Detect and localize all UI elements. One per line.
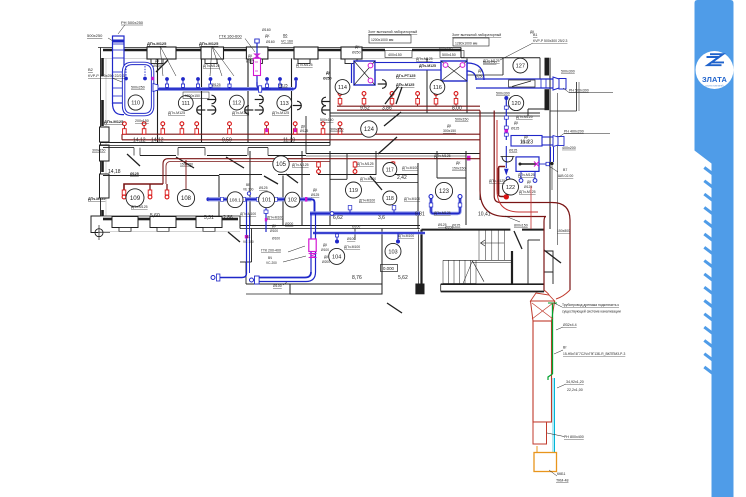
svg-text:0.000: 0.000	[383, 266, 395, 271]
svg-text:ДПч-М125: ДПч-М125	[434, 154, 451, 158]
svg-text:ДК: ДК	[527, 180, 531, 184]
svg-text:111: 111	[182, 101, 191, 107]
logo Z glyph	[707, 57, 722, 65]
svg-text:105: 105	[276, 162, 287, 168]
svg-text:Ø125: Ø125	[438, 223, 447, 227]
svg-text:ДПч-М100: ДПч-М100	[402, 166, 418, 170]
svg-text:ДПч-М125: ДПч-М125	[199, 41, 219, 46]
svg-text:ДПч-М100: ДПч-М100	[360, 177, 376, 181]
GTK unit elbow to room 113	[257, 82, 271, 89]
label level 0.000	[381, 265, 398, 272]
room circle 109	[126, 189, 144, 207]
svg-text:ТКМ-48: ТКМ-48	[556, 479, 568, 483]
corridor bottom wall zigzag	[103, 147, 134, 149]
svg-text:9,81: 9,81	[415, 212, 425, 218]
flow value box 11.23	[511, 136, 542, 147]
label 500x150 box	[440, 51, 464, 58]
svg-text:9,52: 9,52	[360, 106, 370, 112]
stub and diffuser room 103	[397, 233, 399, 240]
svg-text:800х150: 800х150	[514, 224, 528, 228]
svg-text:150х150: 150х150	[180, 163, 193, 167]
fume hood room 116	[441, 61, 467, 81]
drainage pipe green	[552, 303, 554, 374]
svg-text:400х200: 400х200	[562, 146, 576, 150]
partition walls top room band	[157, 59, 159, 143]
U-duct room 123	[431, 198, 460, 214]
shaft transition trapezoid	[531, 301, 555, 321]
svg-text:127: 127	[516, 64, 525, 70]
exhaust outlet PN 500x300	[553, 77, 559, 90]
riser connection to ShV unit	[505, 146, 507, 168]
svg-text:Ø200: Ø200	[285, 222, 293, 226]
svg-text:ГТК 200-400: ГТК 200-400	[261, 249, 281, 253]
corridor top wall (right part)	[330, 112, 540, 114]
svg-text:ДПч-М100: ДПч-М100	[398, 234, 414, 238]
duct elbow to outlet 200	[259, 272, 311, 278]
room circle 114	[335, 80, 350, 95]
room circle 108	[177, 189, 194, 206]
svg-text:1200х150: 1200х150	[185, 94, 200, 98]
svg-text:ДК: ДК	[524, 135, 528, 139]
svg-text:103: 103	[388, 249, 397, 255]
blue brand ribbon	[695, 0, 734, 497]
duct transition to shaft	[544, 290, 570, 299]
svg-text:ДК: ДК	[456, 161, 461, 165]
logo circle ZLATA	[696, 51, 734, 89]
damper box in exhaust duct	[509, 80, 535, 87]
svg-text:300х150: 300х150	[330, 128, 343, 132]
svg-text:5,62: 5,62	[398, 275, 408, 281]
KKB1 unit box orange	[534, 453, 557, 472]
condensate pipe cyan	[545, 378, 555, 462]
svg-text:ВС: ВС	[246, 235, 251, 239]
diffuser stubs rooms 111-113	[166, 81, 168, 90]
stub and diffuser room 104	[336, 233, 338, 240]
room circle 120	[508, 95, 523, 110]
svg-text:Ø100: Ø100	[273, 284, 282, 288]
svg-text:Ø250: Ø250	[475, 75, 484, 79]
partition walls middle band	[218, 176, 220, 217]
svg-text:ГТК 160-600: ГТК 160-600	[219, 34, 243, 39]
duct end cap room below	[255, 276, 260, 284]
riser duct room 120	[505, 99, 507, 140]
svg-text:ДПч-М125: ДПч-М125	[396, 83, 414, 87]
right outer wall	[549, 58, 551, 229]
svg-text:101: 101	[262, 198, 271, 204]
middle-bottom partitions	[251, 229, 253, 263]
svg-text:KVP-P 500х300 25/2.3: KVP-P 500х300 25/2.3	[533, 39, 568, 43]
exhaust shaft down to KKB	[533, 321, 552, 422]
svg-text:ДК: ДК	[155, 59, 159, 63]
duct reducer room 110-111	[153, 84, 158, 92]
svg-text:Вт: Вт	[563, 346, 567, 350]
bottom wall rooms 104/103	[290, 284, 382, 294]
room circle 104	[329, 248, 345, 264]
room circle 112	[229, 95, 244, 110]
exterior L-wall at top right exit	[576, 82, 578, 111]
svg-text:108.1: 108.1	[229, 197, 241, 202]
svg-text:2,86: 2,86	[223, 215, 233, 221]
GTK 200-400 unit box	[309, 239, 316, 252]
svg-text:Ø250: Ø250	[352, 51, 361, 55]
room circle 122	[503, 179, 519, 195]
svg-text:существующей системе канализац: существующей системе канализации	[562, 310, 621, 314]
svg-text:Ø160: Ø160	[266, 40, 275, 44]
left outer wall	[100, 48, 102, 217]
exhaust run RA rooms 114-116	[337, 105, 480, 107]
main supply run rooms 111-113	[158, 87, 294, 91]
svg-text:ДК: ДК	[323, 243, 327, 247]
svg-text:ДПч-М125: ДПч-М125	[518, 173, 535, 177]
stair diagonal cut line	[472, 261, 484, 282]
room circle 127	[513, 58, 528, 73]
svg-text:Ø100: Ø100	[347, 237, 355, 241]
svg-text:Зонт вытяжной лабораторный: Зонт вытяжной лабораторный	[452, 33, 501, 37]
svg-text:VC-200: VC-200	[266, 261, 277, 265]
wall crossing symbol room 114	[382, 80, 386, 89]
svg-text:Ø100: Ø100	[272, 237, 280, 241]
room circle 123	[435, 182, 452, 199]
svg-text:ДК: ДК	[326, 71, 331, 75]
svg-text:150х800: 150х800	[557, 229, 570, 233]
stairwell bottom wall	[441, 283, 544, 285]
room circle 111	[178, 96, 193, 111]
svg-text:300х150: 300х150	[92, 149, 105, 153]
svg-text:116: 116	[433, 85, 442, 91]
top wall window boxes	[147, 47, 176, 59]
svg-text:102: 102	[288, 198, 297, 204]
duct drop along right wall	[550, 147, 552, 162]
room 122 connection stubs	[520, 171, 522, 179]
svg-text:119: 119	[349, 188, 358, 194]
middle-bottom band top wall	[240, 225, 420, 227]
svg-text:14,12: 14,12	[151, 138, 164, 144]
room circle 102	[285, 192, 300, 207]
svg-text:ДПч-М125: ДПч-М125	[168, 111, 185, 115]
label 1200x150 room 111	[183, 92, 209, 98]
room 108 exhaust marker	[185, 160, 187, 193]
riser cap band	[113, 40, 125, 43]
svg-text:Ø200: Ø200	[352, 225, 360, 229]
bold leader diagonals corridor 124	[384, 112, 401, 126]
south corridor run lower (rooms 104/103)	[313, 232, 425, 235]
left bottom corner step	[91, 216, 101, 233]
svg-text:Зонт вытяжной лабораторный: Зонт вытяжной лабораторный	[368, 30, 417, 34]
stairwell walls	[420, 230, 422, 284]
room circle 110	[128, 95, 143, 110]
riser duct left room 104 area	[246, 200, 248, 273]
top-right section wall (room 127)	[460, 48, 462, 58]
drop duct room 101	[265, 201, 267, 232]
room circle 119	[346, 182, 362, 198]
svg-text:22,2х1,00: 22,2х1,00	[567, 388, 583, 392]
svg-text:1280х1000 мм: 1280х1000 мм	[455, 42, 478, 46]
svg-text:104: 104	[332, 254, 341, 260]
svg-text:14,18: 14,18	[108, 169, 121, 175]
svg-text:Ø32х4.4: Ø32х4.4	[563, 323, 577, 327]
secondary exhaust run RC corridor south	[163, 159, 480, 184]
svg-text:Ø125: Ø125	[452, 224, 460, 228]
svg-text:ДПч-М125: ДПч-М125	[419, 64, 436, 68]
svg-text:Ø100: Ø100	[270, 229, 278, 233]
room circle 101	[259, 192, 275, 208]
svg-text:15-Н5хГ4Г7С2VхГ9Г13Б-R_ВКППМЗ-: 15-Н5хГ4Г7С2VхГ9Г13Б-R_ВКППМЗ-Р-3	[563, 352, 625, 356]
svg-text:1200х1000 мм: 1200х1000 мм	[371, 38, 394, 42]
siphon arc symbol under 11.23	[502, 157, 513, 163]
RA drop markers	[339, 96, 341, 107]
svg-text:VC 160: VC 160	[281, 40, 293, 44]
svg-text:ДПч-М125: ДПч-М125	[272, 111, 289, 115]
middle band top wall segments	[219, 174, 262, 176]
svg-text:9,59: 9,59	[222, 138, 232, 144]
svg-text:ДК: ДК	[265, 34, 270, 38]
svg-text:10,41: 10,41	[478, 212, 491, 218]
duct 400x200 to right wall exit	[542, 136, 553, 138]
svg-text:ДПч-М125: ДПч-М125	[88, 197, 105, 201]
svg-text:ККБ1: ККБ1	[557, 472, 566, 476]
svg-text:Ø250: Ø250	[323, 77, 332, 81]
svg-text:ВЧ: ВЧ	[268, 256, 272, 260]
svg-text:ДПч-М125: ДПч-М125	[131, 205, 148, 209]
left rooms bottom wall and sills	[98, 215, 240, 217]
svg-text:ДПч-М125: ДПч-М125	[434, 211, 451, 215]
room 122 exhaust branch	[499, 167, 506, 169]
svg-text:500х150: 500х150	[455, 118, 468, 122]
svg-text:ДПч-М125: ДПч-М125	[292, 163, 309, 167]
svg-text:500х250: 500х250	[87, 33, 103, 38]
svg-text:Ø200: Ø200	[322, 260, 330, 264]
duct elbow room 116 to main exhaust	[467, 63, 484, 80]
svg-text:Ø125: Ø125	[279, 84, 288, 88]
svg-text:ДПч-М125: ДПч-М125	[232, 111, 249, 115]
room circle 117	[383, 163, 397, 177]
ribbon serration teeth	[704, 168, 713, 375]
svg-text:РН 800х400: РН 800х400	[564, 435, 584, 439]
svg-text:5,60: 5,60	[150, 213, 160, 219]
room circle 105	[273, 156, 289, 172]
svg-text:123: 123	[439, 189, 450, 195]
label 400x150 box	[385, 51, 412, 58]
svg-text:11,10: 11,10	[283, 138, 295, 144]
svg-text:ДК: ДК	[313, 188, 317, 192]
svg-text:8,00: 8,00	[452, 106, 462, 112]
svg-text:РН 500х250: РН 500х250	[121, 20, 144, 25]
room circle 113	[277, 96, 292, 111]
svg-text:113: 113	[280, 101, 289, 107]
svg-text:114: 114	[338, 85, 347, 91]
svg-text:Ø125: Ø125	[153, 64, 161, 68]
svg-text:В7: В7	[563, 168, 567, 172]
svg-text:Ø125: Ø125	[509, 149, 517, 153]
svg-text:ДПч-М125: ДПч-М125	[296, 63, 313, 67]
svg-text:ДК: ДК	[272, 224, 276, 228]
building outer top wall	[98, 47, 461, 49]
svg-text:ЗЛАТА: ЗЛАТА	[702, 75, 727, 84]
svg-text:ДПч-М125: ДПч-М125	[203, 64, 220, 68]
bright red inner duct line	[497, 120, 538, 212]
svg-text:ШВ 02.00: ШВ 02.00	[558, 174, 573, 178]
svg-text:Ø125: Ø125	[521, 140, 529, 144]
svg-text:ДПч-М125: ДПч-М125	[519, 190, 536, 194]
room circle 124	[361, 121, 377, 137]
stair walk arrow	[481, 242, 504, 244]
svg-text:ДК: ДК	[530, 30, 534, 34]
main exhaust trunk vertical (wide duct)	[480, 111, 540, 217]
svg-text:500х150: 500х150	[442, 53, 456, 57]
RB drop markers rooms 110-113	[123, 125, 125, 134]
svg-text:5,31: 5,31	[204, 215, 214, 221]
svg-text:110: 110	[131, 101, 140, 107]
svg-text:ДПч-М125: ДПч-М125	[147, 41, 167, 46]
ventilation unit box room 121 (ShV 02.00)	[516, 157, 539, 172]
svg-text:Ø125: Ø125	[311, 193, 319, 197]
svg-text:Ø125: Ø125	[300, 129, 308, 133]
duct elbow room 110	[113, 103, 125, 115]
PN 800x400 grille box in shaft	[533, 422, 547, 444]
svg-text:Ø125: Ø125	[212, 83, 221, 87]
svg-text:Ø160: Ø160	[262, 28, 271, 32]
svg-text:ДПч-М125: ДПч-М125	[104, 119, 124, 124]
GTK 160-600 unit box	[254, 58, 261, 75]
svg-text:500х150: 500х150	[320, 118, 333, 122]
rooms 110-113 bottom wall / corridor	[100, 142, 330, 144]
svg-text:ДГч-РТ125: ДГч-РТ125	[396, 74, 415, 78]
corridor riser turn down	[312, 199, 315, 213]
svg-text:112: 112	[232, 101, 241, 107]
svg-text:ДК: ДК	[324, 255, 328, 259]
room circle 118	[383, 191, 397, 205]
magenta ticks under RB drops	[265, 129, 268, 133]
svg-text:200х150: 200х150	[135, 119, 149, 123]
svg-text:500х300: 500х300	[561, 70, 575, 74]
svg-text:ДПч-М125: ДПч-М125	[516, 115, 533, 119]
duct bend room 113 riser	[294, 81, 297, 89]
stair treads upper flight	[478, 230, 480, 260]
svg-text:ДПч-М100: ДПч-М100	[404, 197, 420, 201]
svg-text:Ø125: Ø125	[130, 172, 139, 176]
svg-text:В2: В2	[88, 67, 94, 72]
room circle 116	[430, 80, 445, 95]
axis marker circle bottom-left	[95, 229, 103, 237]
corridor south wall right part	[306, 153, 480, 155]
wall crossing symbols partitions 111/112	[197, 106, 201, 115]
svg-text:109: 109	[130, 195, 141, 202]
fume hood room 114	[354, 61, 375, 85]
GTK 160-600 unit riser	[256, 43, 258, 82]
svg-text:KVP-P 500х250 22/2.3: KVP-P 500х250 22/2.3	[88, 74, 125, 78]
main exhaust duct 500x300 to right wall	[476, 78, 553, 80]
svg-text:150х150: 150х150	[452, 167, 465, 171]
svg-text:ДПч-М125: ДПч-М125	[357, 162, 374, 166]
svg-text:ДПч-М100: ДПч-М100	[240, 212, 256, 216]
svg-text:34,92х1,20: 34,92х1,20	[566, 380, 584, 384]
svg-text:VE 100: VE 100	[243, 188, 254, 192]
svg-text:400х150: 400х150	[388, 53, 402, 57]
trunk elbow down at right wall	[552, 203, 570, 291]
room 109 band top wall	[103, 175, 219, 177]
down arrow on riser	[504, 169, 508, 175]
top wall thick dashes between windows	[103, 49, 147, 52]
svg-text:ДК: ДК	[514, 121, 518, 125]
svg-text:Ø100: Ø100	[321, 248, 329, 252]
svg-text:124: 124	[364, 127, 375, 133]
svg-text:500х300: 500х300	[496, 92, 510, 96]
svg-text:500х250: 500х250	[131, 86, 145, 90]
middle band supply run rooms 108.1-102	[206, 197, 210, 201]
svg-text:РН 500х300: РН 500х300	[569, 89, 589, 93]
svg-text:500х150: 500х150	[483, 61, 496, 65]
GTK 160-600 magenta valve	[255, 54, 260, 58]
shaft transition cross bracing	[532, 303, 553, 319]
supply duct riser room 110 (PN 500x250)	[113, 36, 125, 103]
svg-text:14,12: 14,12	[133, 138, 146, 144]
door swing diagonals	[127, 154, 140, 166]
svg-text:группа компаний: группа компаний	[706, 85, 725, 88]
svg-text:ДПч-М100: ДПч-М100	[267, 216, 283, 220]
svg-text:Ø125: Ø125	[246, 60, 254, 64]
svg-text:В6: В6	[283, 34, 287, 38]
stair treads lower flight	[442, 260, 444, 283]
right wall black fill segments	[545, 58, 550, 76]
svg-text:ДПч-М100: ДПч-М100	[344, 245, 360, 249]
svg-text:ДК: ДК	[248, 54, 252, 58]
svg-text:2,42: 2,42	[397, 175, 407, 181]
svg-text:500х150: 500х150	[439, 47, 452, 51]
room circle 108.1	[227, 192, 243, 208]
svg-text:122: 122	[506, 185, 515, 191]
svg-text:120: 120	[511, 101, 520, 107]
svg-text:3,86: 3,86	[382, 106, 392, 112]
RC drop markers	[318, 161, 320, 170]
svg-text:ДК: ДК	[447, 124, 451, 128]
svg-text:117: 117	[386, 167, 394, 173]
svg-text:8,76: 8,76	[352, 275, 362, 281]
south corridor run upper	[310, 211, 420, 215]
supply loop duct room 110	[124, 63, 153, 114]
svg-text:6,62: 6,62	[333, 215, 343, 221]
svg-text:3,6: 3,6	[378, 215, 385, 221]
svg-text:108: 108	[181, 196, 192, 202]
room circle 103	[385, 243, 401, 259]
svg-text:VC 100: VC 100	[243, 240, 254, 244]
svg-text:ВЕ: ВЕ	[246, 183, 250, 187]
svg-text:РН 400х200: РН 400х200	[564, 130, 584, 134]
svg-text:118: 118	[386, 196, 394, 202]
loop inner fittings room 110	[125, 66, 127, 76]
svg-text:ДПч-М125: ДПч-М125	[416, 57, 433, 61]
svg-text:ДК: ДК	[301, 125, 305, 129]
svg-text:Ø125: Ø125	[259, 186, 268, 190]
svg-text:300х150: 300х150	[443, 129, 456, 133]
corridor door diagonals	[176, 157, 194, 168]
bottom wall thick dashes	[103, 218, 112, 221]
main exhaust run RB corridor	[122, 133, 480, 135]
riser duct GTK 200-400	[310, 214, 312, 273]
svg-text:Ø125: Ø125	[511, 127, 519, 131]
exhaust duct 400x150 rooms 114-116	[375, 63, 441, 71]
magenta tick on wall room 123	[467, 156, 471, 161]
SE building corner walls	[527, 240, 529, 284]
svg-text:Трубопровод дренажа подключить: Трубопровод дренажа подключить к	[562, 303, 620, 307]
svg-text:ДПч-М100: ДПч-М100	[359, 199, 375, 203]
room 109 exhaust loop	[124, 184, 163, 190]
